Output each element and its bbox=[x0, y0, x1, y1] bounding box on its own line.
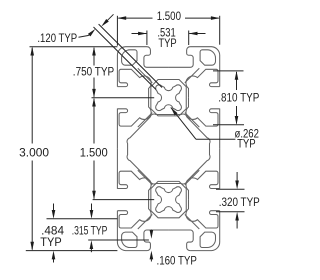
corner cavity bbox=[122, 50, 137, 65]
side slot cavity half bbox=[117, 69, 151, 97]
star boss top bbox=[151, 80, 186, 116]
outer shell quarter bbox=[190, 47, 220, 87]
dimension 3.000 overall height bbox=[30, 46, 118, 48]
dimension .320 TYP side slot opening bbox=[216, 188, 245, 190]
svg-text:1.500: 1.500 bbox=[80, 148, 108, 160]
interior web diagonals bbox=[138, 68, 153, 83]
svg-text:TYP: TYP bbox=[237, 139, 256, 151]
end slot cavity half bbox=[144, 47, 169, 68]
svg-text:.160 TYP: .160 TYP bbox=[157, 255, 198, 267]
end slot cavity half bbox=[169, 47, 194, 68]
dimension 1.500 between bore centers bbox=[93, 199, 155, 201]
side slot cavity half bbox=[117, 200, 151, 228]
dimension .810 TYP side slot cavity height bbox=[213, 70, 244, 72]
outer shell quarter bbox=[190, 211, 220, 251]
svg-text:.315 TYP: .315 TYP bbox=[72, 226, 108, 238]
corner cavity bbox=[122, 232, 137, 247]
corner cavity bbox=[200, 232, 215, 247]
dimension .484 TYP bbox=[47, 218, 118, 220]
dimension .750 TYP bbox=[92, 97, 155, 99]
dimension .160 TYP bottom wall bbox=[150, 230, 152, 231]
svg-text:3.000: 3.000 bbox=[19, 148, 49, 160]
svg-text:TYP: TYP bbox=[40, 237, 62, 249]
side slot cavity half bbox=[186, 69, 220, 97]
dimension .531 TYP end slot opening bbox=[146, 31, 148, 46]
svg-text:.320 TYP: .320 TYP bbox=[219, 197, 260, 209]
corner cavity bbox=[200, 50, 215, 65]
svg-text:.120 TYP: .120 TYP bbox=[37, 33, 77, 45]
star boss bottom bbox=[151, 181, 186, 217]
svg-text:TYP: TYP bbox=[158, 38, 177, 50]
extrusion profile: outer shell, slots, corner cavities (4 mirrored quadrants) bbox=[117, 47, 168, 149]
end slot cavity half bbox=[169, 230, 194, 251]
octagon core cavity bbox=[127, 114, 210, 184]
svg-text:.484: .484 bbox=[41, 226, 65, 238]
svg-text:1.500: 1.500 bbox=[157, 11, 181, 23]
center bore star bottom bbox=[156, 187, 182, 213]
svg-text:.750 TYP: .750 TYP bbox=[73, 66, 115, 78]
end slot cavity half bbox=[144, 230, 169, 251]
svg-text:.810 TYP: .810 TYP bbox=[218, 93, 259, 105]
outer shell quarter bbox=[117, 47, 147, 87]
side slot cavity half bbox=[186, 200, 220, 228]
dimension .315 TYP bbox=[91, 204, 93, 211]
dimension 1.500 overall width bbox=[116, 16, 118, 46]
outer shell quarter bbox=[117, 211, 147, 251]
center bore star top bbox=[156, 85, 182, 111]
dimension dia .262 TYP center bore bbox=[171, 107, 178, 115]
